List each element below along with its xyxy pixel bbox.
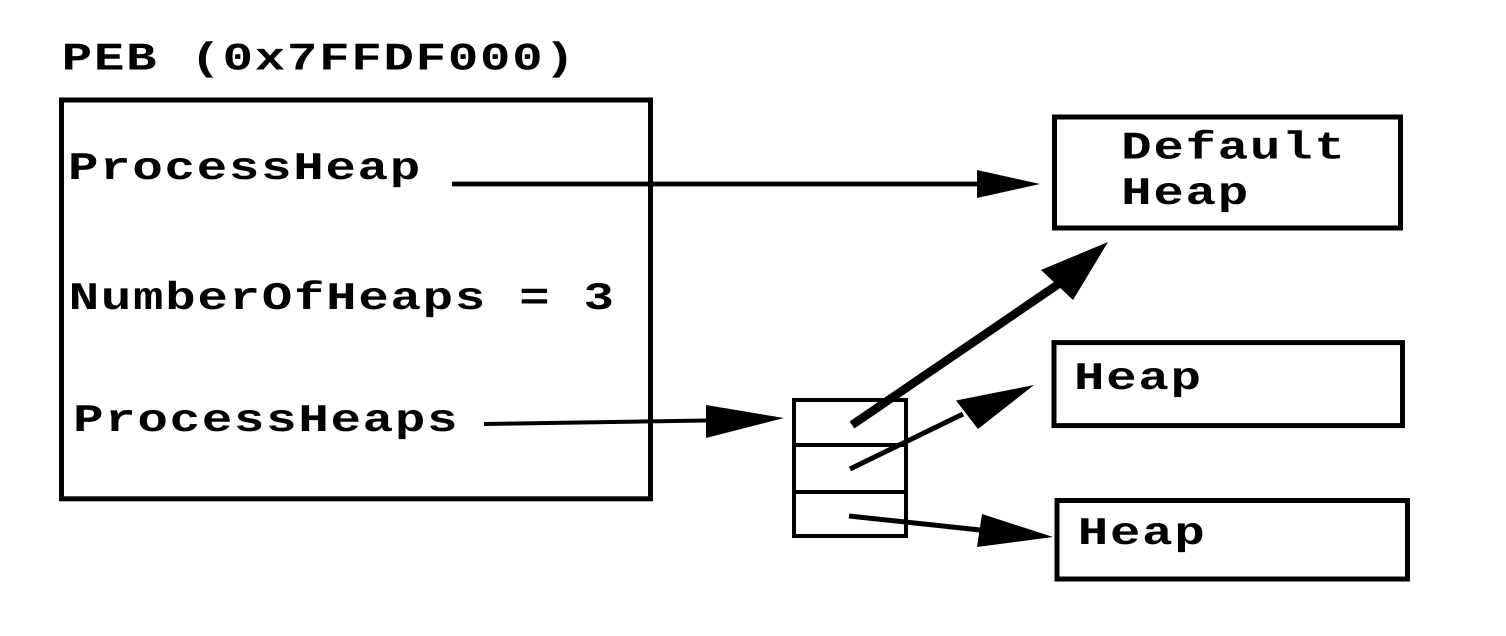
arrowhead to middle Heap — [956, 385, 1034, 429]
arrowhead into array — [706, 405, 784, 438]
array cell divider 2 — [794, 490, 906, 494]
wire array cell 2 to middle Heap — [850, 414, 963, 469]
wire array cell 1 to Default Heap — [852, 283, 1060, 425]
label ProcessHeaps — [77, 405, 455, 439]
arrowhead into Default Heap — [977, 170, 1040, 198]
wire array cell 3 to bottom Heap — [849, 516, 980, 530]
heap array box — [794, 400, 906, 536]
label Heap (bottom) — [1081, 518, 1202, 552]
title PEB (0x7FFDF000) — [65, 41, 566, 77]
arrowhead to Default Heap — [1041, 242, 1108, 300]
wire ProcessHeap to Default Heap — [452, 182, 980, 187]
label Default — [1125, 130, 1340, 159]
array cell divider 1 — [794, 443, 906, 447]
label Heap (middle) — [1077, 363, 1198, 397]
label ProcessHeap — [71, 153, 417, 187]
label Heap (Default Heap line 2) — [1125, 178, 1246, 212]
wire ProcessHeaps to array — [484, 421, 706, 425]
label NumberOfHeaps = 3 — [72, 280, 611, 317]
Heap box bottom — [1057, 501, 1408, 580]
Default Heap box — [1055, 117, 1401, 228]
arrowhead to bottom Heap — [977, 514, 1053, 547]
PEB box — [62, 100, 651, 499]
Heap box middle — [1054, 343, 1403, 426]
